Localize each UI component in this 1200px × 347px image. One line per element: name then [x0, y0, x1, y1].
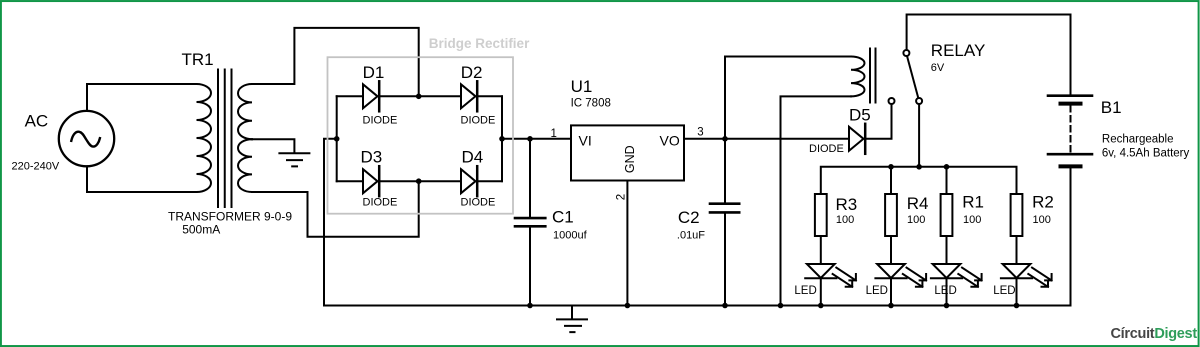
wire D5 cathode to relay contact — [867, 104, 892, 139]
capacitor C1 — [529, 139, 531, 306]
svg-text:DIODE: DIODE — [809, 143, 844, 155]
wire bridge right rail — [501, 96, 503, 181]
resistor R3 — [815, 194, 827, 236]
svg-text:220-240V: 220-240V — [12, 161, 60, 173]
node rail C2 — [722, 303, 728, 309]
LED L4 — [1001, 236, 1052, 306]
wire LED top rail — [821, 167, 1017, 194]
wire U1 pin3 rail to D5 anode — [684, 138, 849, 140]
LED L2 — [875, 236, 926, 306]
svg-text:LED: LED — [993, 285, 1015, 297]
node bridge bottom — [416, 178, 422, 184]
svg-text:DIODE: DIODE — [363, 197, 398, 209]
svg-text:DIODE: DIODE — [461, 115, 496, 127]
diode D3 — [363, 169, 378, 193]
wire secondary top to bridge — [252, 28, 419, 96]
regulator U1 box — [571, 125, 684, 180]
svg-text:R3: R3 — [836, 195, 858, 214]
svg-text:IC 7808: IC 7808 — [571, 98, 611, 110]
svg-text:TRANSFORMER 9-0-9: TRANSFORMER 9-0-9 — [168, 209, 292, 223]
svg-text:100: 100 — [836, 214, 854, 226]
relay switch lever — [907, 56, 918, 98]
svg-text:LED: LED — [934, 285, 956, 297]
svg-text:DIODE: DIODE — [363, 115, 398, 127]
diode D1 — [363, 84, 378, 108]
svg-text:D1: D1 — [363, 63, 385, 82]
svg-text:100: 100 — [1033, 214, 1051, 226]
resistor R4 — [885, 194, 897, 236]
node bridge top — [416, 94, 422, 100]
svg-text:VO: VO — [660, 132, 680, 148]
transformer TR1 secondary top winding — [238, 84, 252, 139]
relay coil — [851, 57, 865, 97]
wire R4 stub — [890, 167, 892, 194]
wire U1 pin2 to ground rail — [626, 181, 628, 306]
wire bridge left rail — [336, 96, 338, 181]
wire secondary center tap — [252, 139, 294, 152]
node LED rail R4 — [888, 164, 894, 170]
svg-text:R1: R1 — [962, 193, 984, 212]
svg-text:C1: C1 — [552, 208, 574, 227]
svg-text:RELAY: RELAY — [931, 41, 986, 60]
node LED rail switch — [916, 164, 922, 170]
wire relay contact to LED rail — [918, 104, 920, 167]
node rail LED1 — [818, 303, 824, 309]
svg-text:500mA: 500mA — [182, 223, 220, 237]
svg-text:B1: B1 — [1101, 98, 1122, 117]
svg-text:CírcuitDigest: CírcuitDigest — [1111, 326, 1198, 342]
svg-text:LED: LED — [794, 285, 816, 297]
capacitor C2 — [724, 139, 726, 306]
svg-text:VI: VI — [579, 132, 592, 148]
node rail pin2 — [625, 303, 631, 309]
transformer TR1 core — [218, 70, 232, 208]
node rail C1 — [527, 303, 533, 309]
AC source — [59, 111, 114, 166]
node rail relay coil — [778, 303, 784, 309]
relay switch pole circle — [903, 50, 909, 56]
svg-text:LED: LED — [866, 285, 888, 297]
diode D4 — [461, 169, 476, 193]
svg-text:D5: D5 — [849, 106, 871, 125]
svg-text:C2: C2 — [678, 208, 700, 227]
wire bridge output to U1 pin1 — [502, 138, 571, 140]
node rail LED4 — [1014, 303, 1020, 309]
svg-text:Bridge Rectifier: Bridge Rectifier — [429, 36, 530, 51]
wire R1 stub — [946, 167, 948, 194]
ground transformer tap — [279, 153, 309, 166]
transformer TR1 secondary bottom winding — [238, 139, 252, 192]
svg-text:.01uF: .01uF — [677, 229, 705, 241]
node bridge right — [499, 136, 505, 142]
svg-text:1000uf: 1000uf — [553, 229, 588, 241]
svg-text:D3: D3 — [361, 148, 383, 167]
svg-text:2: 2 — [616, 194, 628, 200]
battery B1 — [1070, 15, 1072, 95]
svg-text:6v, 4.5Ah Battery: 6v, 4.5Ah Battery — [1102, 147, 1190, 159]
transformer TR1 primary winding — [197, 84, 212, 192]
svg-text:TR1: TR1 — [182, 50, 214, 69]
node C2 relay D5 — [722, 136, 728, 142]
sine symbol — [71, 132, 100, 147]
LED L1 — [805, 236, 856, 306]
svg-text:D2: D2 — [461, 63, 483, 82]
wire bridge bottom row — [337, 180, 502, 182]
wire bottom ground rail — [324, 305, 1071, 307]
LED L3 — [931, 236, 982, 306]
svg-text:AC: AC — [25, 112, 49, 131]
ground main — [557, 306, 587, 333]
relay contact circle NO — [916, 98, 922, 104]
node C1 top — [527, 136, 533, 142]
wire bridge top row — [337, 95, 502, 97]
node rail LED3 — [944, 303, 950, 309]
svg-text:U1: U1 — [571, 77, 593, 96]
wire secondary bottom to bridge — [252, 181, 419, 237]
svg-text:Rechargeable: Rechargeable — [1102, 133, 1174, 145]
svg-text:1: 1 — [551, 128, 557, 140]
svg-text:R2: R2 — [1032, 193, 1054, 212]
diode D5 — [849, 127, 864, 151]
svg-text:3: 3 — [697, 127, 703, 139]
svg-text:100: 100 — [907, 214, 925, 226]
svg-text:R4: R4 — [907, 194, 929, 213]
node rail LED2 — [888, 303, 894, 309]
wire C2 node up to relay coil — [725, 57, 851, 139]
wire relay switch pole to top — [907, 15, 1071, 51]
wire AC bottom — [87, 166, 197, 192]
diode D2 — [461, 84, 476, 108]
svg-text:DIODE: DIODE — [461, 197, 496, 209]
wire bridge left node to ground rail — [324, 139, 337, 306]
resistor R1 — [941, 194, 953, 236]
node LED rail R1 — [944, 164, 950, 170]
svg-text:GND: GND — [623, 145, 637, 173]
bridge rectifier gray box — [328, 57, 514, 214]
svg-text:100: 100 — [963, 214, 981, 226]
resistor R2 — [1011, 194, 1023, 236]
wire relay coil bottom to ground rail — [781, 96, 852, 305]
node bridge left — [334, 136, 340, 142]
relay contact circle NC — [889, 98, 895, 104]
relay core — [870, 49, 876, 103]
LED symbols group — [805, 236, 1051, 306]
svg-text:D4: D4 — [462, 148, 484, 167]
svg-text:6V: 6V — [931, 62, 945, 74]
wire AC top — [87, 84, 197, 111]
